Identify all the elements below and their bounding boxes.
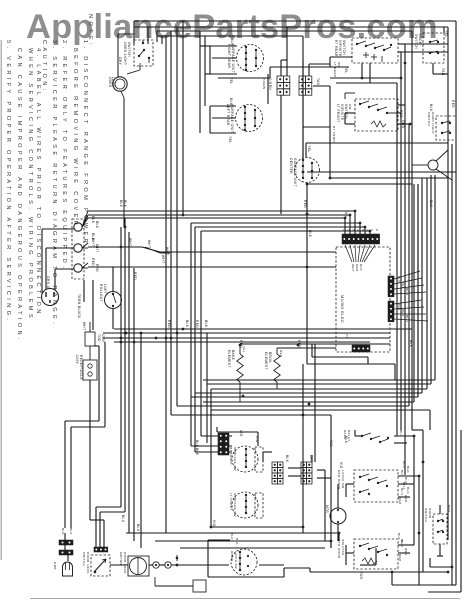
switch rollout limit: [99, 284, 122, 309]
svg-text:RED: RED: [133, 272, 137, 280]
label RED broil: [279, 350, 283, 358]
label RED SW2: [399, 110, 403, 118]
labels BLK wires: [91, 216, 99, 241]
pin numbers strip P1: [342, 229, 379, 231]
svg-text:BLK: BLK: [429, 200, 433, 208]
svg-text:RED: RED: [297, 340, 301, 348]
switch oven light SW3 (dashed box): [427, 112, 456, 140]
svg-text:TOD: TOD: [97, 334, 101, 342]
svg-text:RED: RED: [279, 350, 283, 358]
surface unit CR (dashed circle): [289, 158, 320, 187]
svg-text:1: 1: [342, 229, 346, 231]
svg-text:BLU: BLU: [405, 288, 409, 295]
labels SWB right: [400, 470, 408, 503]
svg-text:SURFACE UNIT: SURFACE UNIT: [293, 158, 297, 187]
wire motor: [325, 462, 338, 548]
wire corner c3: [211, 178, 427, 389]
svg-text:BLU: BLU: [400, 539, 404, 546]
wire top-left drops: [134, 21, 162, 44]
svg-text:YEL: YEL: [444, 30, 448, 38]
wire SWC out: [346, 545, 414, 565]
stub connector: [176, 555, 179, 561]
wire bus x195b: [195, 451, 232, 453]
svg-text:SWITCH: SWITCH: [427, 112, 431, 126]
wire element vert right: [314, 344, 316, 462]
svg-text:RIGHT REAR: RIGHT REAR: [227, 44, 231, 68]
svg-text:MTR: MTR: [325, 505, 329, 513]
connector block CB3: [272, 462, 283, 484]
svg-text:SWITCH: SWITCH: [414, 34, 418, 49]
svg-text:BLU: BLU: [400, 488, 404, 495]
svg-text:GRY: GRY: [118, 57, 122, 66]
svg-text:LATCH SW: LATCH SW: [234, 551, 238, 569]
svg-text:Y/GRN: Y/GRN: [262, 78, 266, 90]
svg-text:ELEMENT: ELEMENT: [227, 350, 231, 368]
wire LR bracket: [210, 106, 236, 133]
terminal ring WHT: [74, 243, 88, 252]
switch cluster SWB (dashed box): [337, 470, 398, 502]
svg-text:TAN: TAN: [316, 78, 320, 86]
terminal ring BLK: [74, 211, 88, 231]
svg-text:LT FRONT: LT FRONT: [229, 493, 233, 511]
svg-text:WHEN SERVICING CONTROLS. WIRIN: WHEN SERVICING CONTROLS. WIRING PROBLEMS: [27, 48, 33, 321]
wire band y533: [126, 533, 339, 541]
junction dots far right: [418, 461, 454, 574]
wire x303 drop: [302, 364, 304, 527]
switch oven light S1 (dashed box): [123, 40, 153, 74]
wire bell links: [65, 533, 68, 561]
label BLK LR: [229, 98, 233, 106]
svg-text:SW: SW: [337, 62, 341, 68]
switch cluster SWC (dashed box): [337, 539, 398, 569]
label BLK right: [429, 104, 433, 112]
svg-text:BLU: BLU: [121, 515, 125, 523]
svg-text:CAN CAUSE IMPROPER AND DANGERO: CAN CAUSE IMPROPER AND DANGEROUS OPERATI…: [16, 48, 22, 343]
svg-text:BLK: BLK: [344, 436, 348, 444]
switch SW1 H-links: [363, 52, 382, 62]
label YEL lock: [444, 30, 448, 38]
svg-text:5. VERIFY PROPER OPERATION AFT: 5. VERIFY PROPER OPERATION AFTER SERVICI…: [5, 40, 11, 323]
wire ladder y364: [307, 350, 395, 380]
wire y415 run: [171, 415, 331, 462]
svg-text:VIO: VIO: [212, 520, 216, 527]
label YEL CR: [307, 145, 311, 153]
wire mid right verticals: [412, 184, 423, 430]
connector block CB4: [301, 462, 312, 484]
wire right box top: [306, 143, 448, 158]
svg-text:MOTOR: MOTOR: [119, 552, 123, 566]
element BAKE (zigzag): [227, 344, 243, 402]
wire corner c6: [203, 184, 414, 402]
svg-text:WHT: WHT: [161, 255, 165, 263]
wire band C1: [191, 223, 360, 446]
svg-text:LIMIT: LIMIT: [103, 284, 107, 294]
svg-text:RT FRONT: RT FRONT: [332, 126, 336, 144]
svg-text:RED: RED: [91, 258, 95, 266]
wire bus x211: [210, 389, 212, 527]
header P5: [388, 276, 394, 297]
svg-text:BLK: BLK: [119, 200, 123, 208]
wire stub SW2: [345, 93, 398, 113]
header P5 fan: [394, 271, 426, 295]
surface unit RR (dashed circle): [227, 44, 264, 73]
motor M2 (circle): [325, 505, 346, 524]
connector block CB2: [299, 76, 320, 95]
svg-text:WHT: WHT: [82, 322, 86, 330]
svg-text:SWITCH: SWITCH: [82, 552, 86, 566]
wire top feed 4: [157, 36, 303, 158]
svg-text:7: 7: [370, 229, 374, 231]
wire mid right band: [307, 127, 456, 350]
label TAN C: [359, 572, 363, 580]
wire bus x171: [170, 31, 172, 415]
labels BLK left chain: [61, 528, 73, 535]
svg-text:RED: RED: [167, 320, 171, 328]
switch door (dashed box): [424, 508, 447, 544]
wire corner c5: [191, 184, 418, 397]
connector block P6: [218, 433, 229, 455]
svg-text:5: 5: [361, 229, 365, 231]
wire bus x183: [182, 21, 184, 215]
wire ladder y410: [211, 410, 430, 430]
svg-text:BLK: BLK: [308, 230, 312, 238]
svg-text:RED: RED: [303, 200, 307, 208]
header P4 fan: [394, 300, 428, 322]
wire BLK band: [88, 211, 355, 234]
wire SW1 out: [330, 44, 405, 78]
text block SW2 left: [332, 104, 352, 144]
svg-text:BLK: BLK: [230, 533, 234, 540]
svg-text:BLK: BLK: [406, 466, 410, 473]
label TAN lock: [441, 68, 445, 76]
svg-text:WHT: WHT: [147, 240, 151, 248]
svg-text:ORN: ORN: [401, 120, 405, 129]
svg-text:Y/GRN: Y/GRN: [268, 78, 272, 90]
svg-text:GRN-G: GRN-G: [46, 276, 50, 289]
wire bus x134: [133, 268, 135, 541]
wire WHT run: [88, 247, 336, 252]
wire element tops: [240, 344, 390, 348]
svg-text:BLK: BLK: [229, 98, 233, 106]
svg-text:BLU: BLU: [136, 524, 140, 532]
wire band y329: [103, 329, 412, 342]
labels SWC right: [400, 540, 408, 556]
wire bus x166: [165, 36, 167, 533]
wire RR bracket: [210, 46, 237, 74]
svg-text:BLK: BLK: [185, 320, 189, 328]
svg-text:RED: RED: [404, 548, 408, 556]
wire bus x177: [176, 27, 178, 406]
wire CB2 right: [303, 86, 330, 127]
svg-text:WHT: WHT: [165, 247, 169, 255]
element BROIL (zigzag): [264, 348, 280, 389]
svg-text:M1/W2 ELEC: M1/W2 ELEC: [340, 295, 345, 323]
svg-text:RED: RED: [95, 264, 99, 272]
svg-text:TERM BLOCK: TERM BLOCK: [77, 294, 81, 319]
wire SW2 out: [345, 105, 409, 124]
wire corner c2: [207, 175, 431, 384]
svg-text:BLU: BLU: [405, 315, 409, 322]
svg-text:WHT: WHT: [128, 238, 132, 246]
svg-text:RED: RED: [195, 320, 199, 328]
svg-text:BLK: BLK: [409, 340, 413, 348]
svg-text:TAN: TAN: [359, 572, 363, 580]
svg-text:TAN: TAN: [344, 210, 348, 218]
wire N top feed: [157, 31, 412, 430]
fuse TOD 150F: [82, 322, 105, 360]
note text block: [5, 14, 93, 343]
svg-text:8: 8: [375, 229, 379, 231]
wire bottom run: [172, 548, 448, 572]
svg-text:BLU: BLU: [399, 430, 403, 437]
svg-text:SW: SW: [348, 104, 352, 110]
svg-text:LATCH SW: LATCH SW: [341, 470, 345, 488]
label YEL bake: [242, 346, 246, 353]
wire latch box: [208, 540, 310, 577]
ground plug (bell): [53, 562, 73, 576]
node J1 (circle junction): [412, 150, 452, 180]
wire bus x125: [100, 218, 125, 547]
switch infinite SW2 (dashed box): [336, 99, 398, 131]
svg-text:RED: RED: [398, 497, 402, 505]
wire corner c7: [177, 124, 409, 406]
svg-text:YEL: YEL: [329, 440, 333, 447]
svg-text:BLK: BLK: [406, 487, 410, 494]
svg-text:WHT: WHT: [91, 238, 95, 246]
receptacle 120V: [75, 355, 97, 380]
svg-text:YEL: YEL: [228, 136, 232, 144]
svg-text:RED: RED: [397, 303, 401, 311]
power cord plug: [42, 276, 59, 306]
text block SW1 left: [333, 62, 341, 78]
connector pair CP1: [59, 540, 73, 545]
wire lock chain: [110, 564, 172, 566]
connector row door lock sw: [94, 547, 108, 552]
svg-text:SWITCH: SWITCH: [127, 42, 131, 57]
svg-text:ELEMENT: ELEMENT: [264, 352, 268, 370]
wire unit feeds left: [200, 31, 210, 133]
svg-text:BLK: BLK: [359, 264, 363, 271]
svg-text:BLK: BLK: [285, 455, 289, 463]
wire band y548: [180, 547, 325, 549]
svg-text:VIO: VIO: [339, 462, 343, 469]
wire x452 tap: [430, 558, 452, 567]
connector CN1: [153, 562, 159, 568]
labels RED wires: [91, 258, 99, 272]
svg-text:BLU: BLU: [402, 461, 406, 468]
svg-text:P3: P3: [345, 334, 349, 338]
wire band y541: [155, 541, 331, 548]
svg-text:SWITCH: SWITCH: [342, 40, 346, 55]
labels WHT wires: [91, 238, 99, 252]
junction dots right: [361, 62, 421, 478]
terminal ring RED: [74, 263, 88, 272]
label YEL SW1: [344, 66, 348, 74]
svg-text:YEL: YEL: [401, 282, 405, 289]
wire x141 bus: [140, 333, 142, 548]
svg-text:RT REAR: RT REAR: [334, 40, 338, 57]
svg-text:MTR DOOR: MTR DOOR: [337, 539, 341, 559]
wire SWA out: [355, 430, 414, 443]
wire RED run: [88, 266, 336, 268]
label BLU A: [399, 430, 403, 437]
wire rollout: [112, 267, 114, 329]
svg-text:SURFACE SW: SURFACE SW: [233, 447, 237, 471]
wire band C2: [195, 227, 365, 452]
svg-text:INFINITE: INFINITE: [338, 40, 342, 56]
switch infinite SW1 (dashed box): [334, 38, 398, 63]
svg-text:WHT: WHT: [351, 264, 355, 272]
svg-text:BLK: BLK: [123, 200, 127, 208]
junction dots band2: [182, 171, 372, 233]
label VIO: [255, 436, 259, 443]
svg-text:WHT: WHT: [401, 309, 405, 317]
connector P3: [345, 334, 370, 352]
svg-text:LAMP: LAMP: [111, 77, 115, 87]
header P4: [388, 301, 394, 322]
label ORN SW2: [401, 120, 405, 129]
connector CN2: [165, 562, 171, 568]
label VIO B: [339, 462, 343, 469]
svg-text:RED: RED: [355, 264, 359, 272]
svg-text:UNLATCH: UNLATCH: [341, 539, 345, 556]
svg-text:BEFORE REMOVING WIRE COVER.: BEFORE REMOVING WIRE COVER.: [72, 48, 78, 233]
svg-text:LT REAR: LT REAR: [333, 62, 337, 78]
wire bottom cluster: [217, 427, 331, 478]
svg-text:BLK: BLK: [95, 221, 99, 229]
labels right column: [397, 461, 410, 562]
svg-text:BLK: BLK: [204, 320, 208, 328]
wire border right: [428, 430, 461, 592]
svg-text:BLK: BLK: [195, 448, 199, 456]
wire door sw: [437, 505, 443, 556]
svg-text:OVEN LIGHT: OVEN LIGHT: [123, 42, 127, 65]
wire right bus x456 lower: [452, 172, 456, 585]
wire YEL long: [218, 67, 349, 78]
svg-text:BLK: BLK: [429, 104, 433, 112]
scan edge left: [0, 40, 2, 560]
svg-text:INFINITE: INFINITE: [340, 104, 344, 120]
wire band left route A: [65, 346, 99, 528]
wire corner c1: [203, 175, 435, 380]
svg-text:2: 2: [347, 229, 351, 231]
wire right buses: [414, 144, 452, 585]
motor door lock M1: [119, 552, 149, 576]
wire bus x201b: [201, 435, 232, 437]
svg-text:6: 6: [366, 229, 370, 231]
control board M1/W2 ELEC (dashed box): [336, 247, 390, 352]
svg-text:120V: 120V: [75, 355, 79, 365]
wire band y527: [211, 527, 303, 533]
svg-text:MTR DOOR: MTR DOOR: [337, 470, 341, 490]
svg-text:BLK: BLK: [235, 538, 239, 545]
svg-text:TAN: TAN: [441, 68, 445, 76]
connector P1 fan: [345, 245, 375, 272]
svg-text:4. LABEL ALL WIRES PRIOR TO DI: 4. LABEL ALL WIRES PRIOR TO DISCONNECTIO…: [35, 48, 41, 317]
svg-text:CENTER: CENTER: [289, 158, 293, 174]
wire bus x207: [206, 333, 208, 443]
label GRY: [118, 57, 122, 66]
label Y/GRN link: [262, 78, 266, 90]
svg-text:ROLLOUT: ROLLOUT: [99, 284, 103, 302]
svg-text:RED: RED: [239, 340, 243, 348]
svg-text:SURFACE SW: SURFACE SW: [233, 493, 237, 517]
surface switch SW5 (dashed circle): [229, 446, 263, 472]
svg-text:WHT: WHT: [95, 244, 99, 252]
svg-text:LEFT REAR: LEFT REAR: [226, 104, 230, 126]
svg-text:4: 4: [356, 229, 360, 231]
wire L2 top feed: [134, 27, 448, 540]
svg-text:BLK: BLK: [195, 440, 199, 448]
svg-text:RED: RED: [398, 554, 402, 562]
wire band left route B: [71, 342, 105, 528]
svg-text:RECEPTACLE: RECEPTACLE: [79, 355, 83, 380]
wire U1-U2 link: [267, 74, 269, 104]
svg-text:RT FRONT: RT FRONT: [229, 447, 233, 465]
label BLK RR: [230, 38, 234, 46]
svg-text:RED: RED: [404, 495, 408, 503]
svg-text:LT FRONT: LT FRONT: [336, 104, 340, 123]
surface switch SW6 (dashed circle): [229, 492, 263, 518]
wire TB bottom: [84, 280, 93, 330]
wire bus x129: [128, 232, 130, 533]
junction dots crossings: [120, 213, 311, 417]
connector pair CP2: [59, 550, 73, 555]
splice WHT: [145, 240, 170, 263]
surface unit LR (dashed circle): [226, 104, 263, 133]
wire plug to terminals: [42, 229, 74, 293]
svg-text:2. REFER ONLY TO FEATURES EQUI: 2. REFER ONLY TO FEATURES EQUIPPED.: [61, 40, 67, 271]
svg-text:BLK: BLK: [69, 528, 73, 535]
switch cluster SWA: [343, 430, 389, 443]
label YEL RR: [229, 77, 233, 85]
labels latch BLK: [230, 533, 239, 545]
wire bus x121: [96, 227, 121, 547]
svg-text:SWITCH: SWITCH: [424, 508, 428, 522]
switch door latch (dashed circle): [230, 549, 257, 575]
wire bottom right: [392, 572, 452, 585]
svg-text:DOOR: DOOR: [230, 551, 234, 561]
switch lock SW (dashed box): [414, 33, 444, 63]
wire ladder y357: [312, 344, 368, 364]
junction dots bottom: [176, 526, 394, 574]
svg-text:1. DISCONNECT RANGE FROM POWER: 1. DISCONNECT RANGE FROM POWER: [82, 40, 88, 246]
terminal block TB (dashed): [72, 219, 84, 319]
lamp oven lamp DE1: [108, 34, 134, 227]
label YEL LR: [228, 136, 232, 144]
svg-text:BLK: BLK: [230, 38, 234, 46]
svg-text:BLK: BLK: [397, 276, 401, 283]
svg-text:BLU: BLU: [402, 482, 406, 489]
wire corner c4: [195, 178, 422, 393]
svg-text:BLK: BLK: [61, 528, 65, 535]
wire L1 top feed: [134, 21, 456, 172]
switch door lock: [82, 552, 110, 576]
wire band C3: [201, 231, 370, 436]
wire receptacle down: [90, 346, 104, 547]
svg-text:GRN: GRN: [53, 562, 57, 570]
wire SWB out: [346, 476, 419, 497]
scan edge bottom: [30, 598, 460, 600]
junction dots band: [120, 328, 185, 344]
connector strip P1: [342, 234, 380, 244]
svg-text:VIO: VIO: [239, 430, 243, 437]
svg-text:WHT: WHT: [309, 455, 313, 463]
connector P7: [155, 577, 206, 592]
wire bus x191b: [191, 445, 232, 447]
wire CB feeds: [281, 27, 330, 158]
label RED door: [447, 505, 451, 513]
